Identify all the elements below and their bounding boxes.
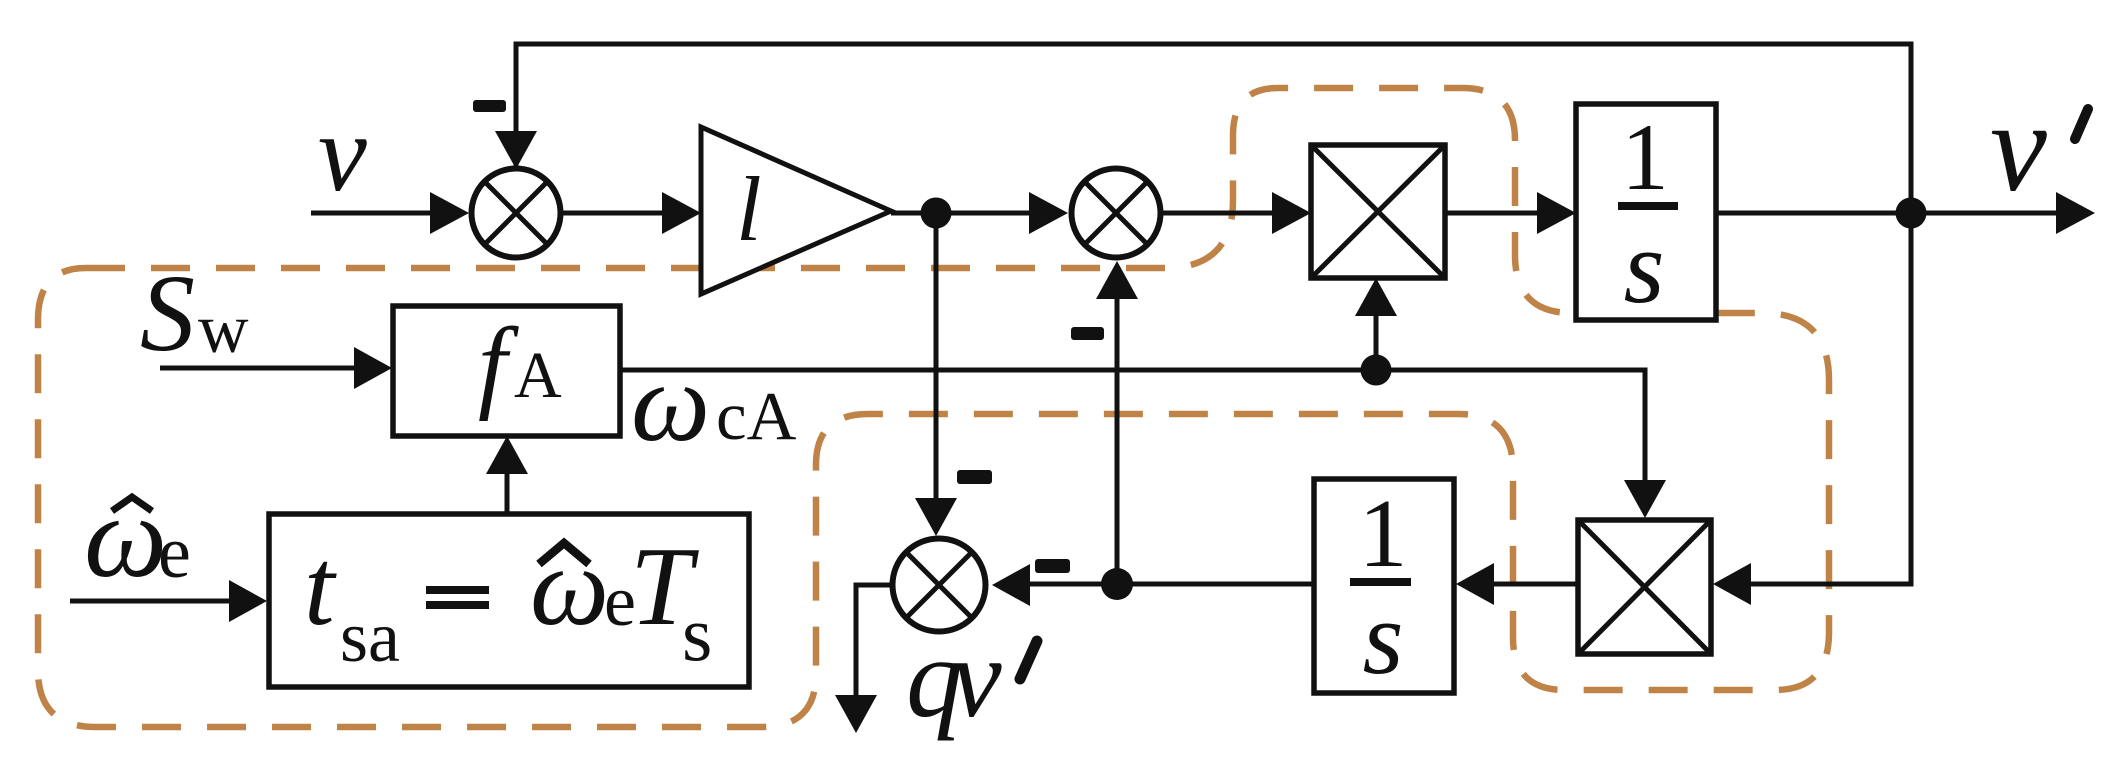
svg-text:A: A (514, 339, 562, 412)
svg-text:S: S (140, 252, 195, 374)
svg-text:l: l (736, 158, 762, 260)
svg-text:cA: cA (716, 378, 797, 454)
svg-text:sa: sa (340, 597, 400, 677)
svg-text:w: w (198, 291, 249, 368)
svg-text:t: t (304, 526, 337, 648)
svg-text:v: v (1990, 76, 2047, 218)
svg-text:ω: ω (84, 471, 167, 602)
svg-text:s: s (682, 590, 712, 677)
svg-text:ω: ω (631, 341, 710, 465)
svg-text:s: s (1624, 208, 1665, 325)
svg-text:v: v (318, 92, 367, 214)
svg-text:v: v (951, 614, 1002, 741)
svg-text:e: e (158, 512, 191, 594)
svg-text:1: 1 (1621, 104, 1669, 210)
svg-text:s: s (1363, 579, 1404, 696)
svg-text:1: 1 (1359, 480, 1408, 588)
